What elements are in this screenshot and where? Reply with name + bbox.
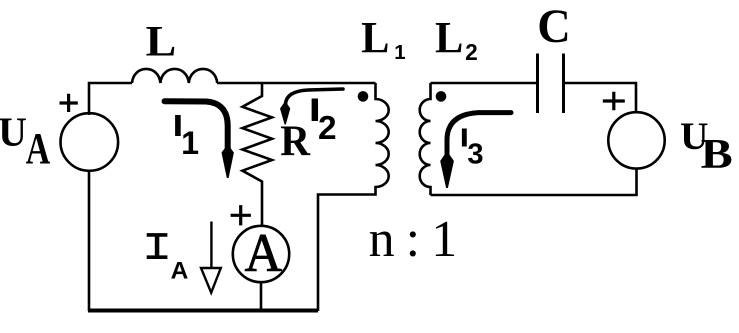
wire from resistor node to transformer L1 bbox=[262, 82, 376, 85]
inductor L bbox=[132, 69, 217, 83]
wire from UB bottom to secondary bottom rail bbox=[431, 169, 637, 195]
svg-text:n:1: n:1 bbox=[369, 211, 458, 268]
ammeter A bbox=[233, 226, 289, 282]
voltage source UA bbox=[61, 113, 119, 171]
svg-text:L: L bbox=[361, 12, 389, 62]
plus sign of UA bbox=[60, 94, 78, 112]
transformer primary winding L1 bbox=[318, 83, 389, 311]
svg-text:2: 2 bbox=[465, 39, 478, 65]
wire from L2 top to capacitor bbox=[431, 82, 538, 85]
svg-text:A: A bbox=[171, 258, 189, 285]
svg-text:2: 2 bbox=[318, 110, 337, 147]
thick current arrow I2 bbox=[286, 89, 344, 104]
svg-text:U: U bbox=[0, 110, 27, 156]
plus sign of ammeter bbox=[231, 205, 251, 225]
resistor R bbox=[242, 83, 272, 226]
wire from UA bottom to bottom rail bbox=[88, 171, 91, 311]
wire from UA top to inductor L bbox=[89, 83, 132, 115]
svg-text:R: R bbox=[280, 118, 311, 165]
wire from inductor to resistor top node bbox=[217, 82, 262, 85]
plus sign of UB bbox=[603, 92, 625, 110]
transformer secondary winding L2 bbox=[420, 83, 431, 195]
wire from ammeter bottom to bottom rail bbox=[260, 282, 263, 311]
svg-text:1: 1 bbox=[394, 42, 405, 64]
svg-text:B: B bbox=[701, 131, 733, 178]
voltage source UB bbox=[608, 112, 664, 168]
wire from capacitor to UB top bbox=[564, 83, 637, 112]
svg-text:L: L bbox=[146, 17, 177, 65]
dot of winding L1 bbox=[358, 91, 369, 102]
svg-text:1: 1 bbox=[181, 125, 199, 161]
svg-text:C: C bbox=[537, 1, 571, 53]
bottom rail of primary loop bbox=[88, 309, 318, 313]
thick current arrow I3 bbox=[447, 113, 511, 155]
label IA bbox=[147, 233, 168, 259]
svg-text:A: A bbox=[26, 125, 51, 173]
svg-text:A: A bbox=[245, 223, 282, 283]
arrow IA bbox=[201, 222, 221, 293]
capacitor C bbox=[538, 54, 564, 114]
svg-text:L: L bbox=[435, 12, 463, 62]
dot of winding L2 bbox=[436, 91, 447, 102]
svg-text:3: 3 bbox=[467, 138, 483, 170]
thick current arrow I1 bbox=[165, 101, 228, 149]
